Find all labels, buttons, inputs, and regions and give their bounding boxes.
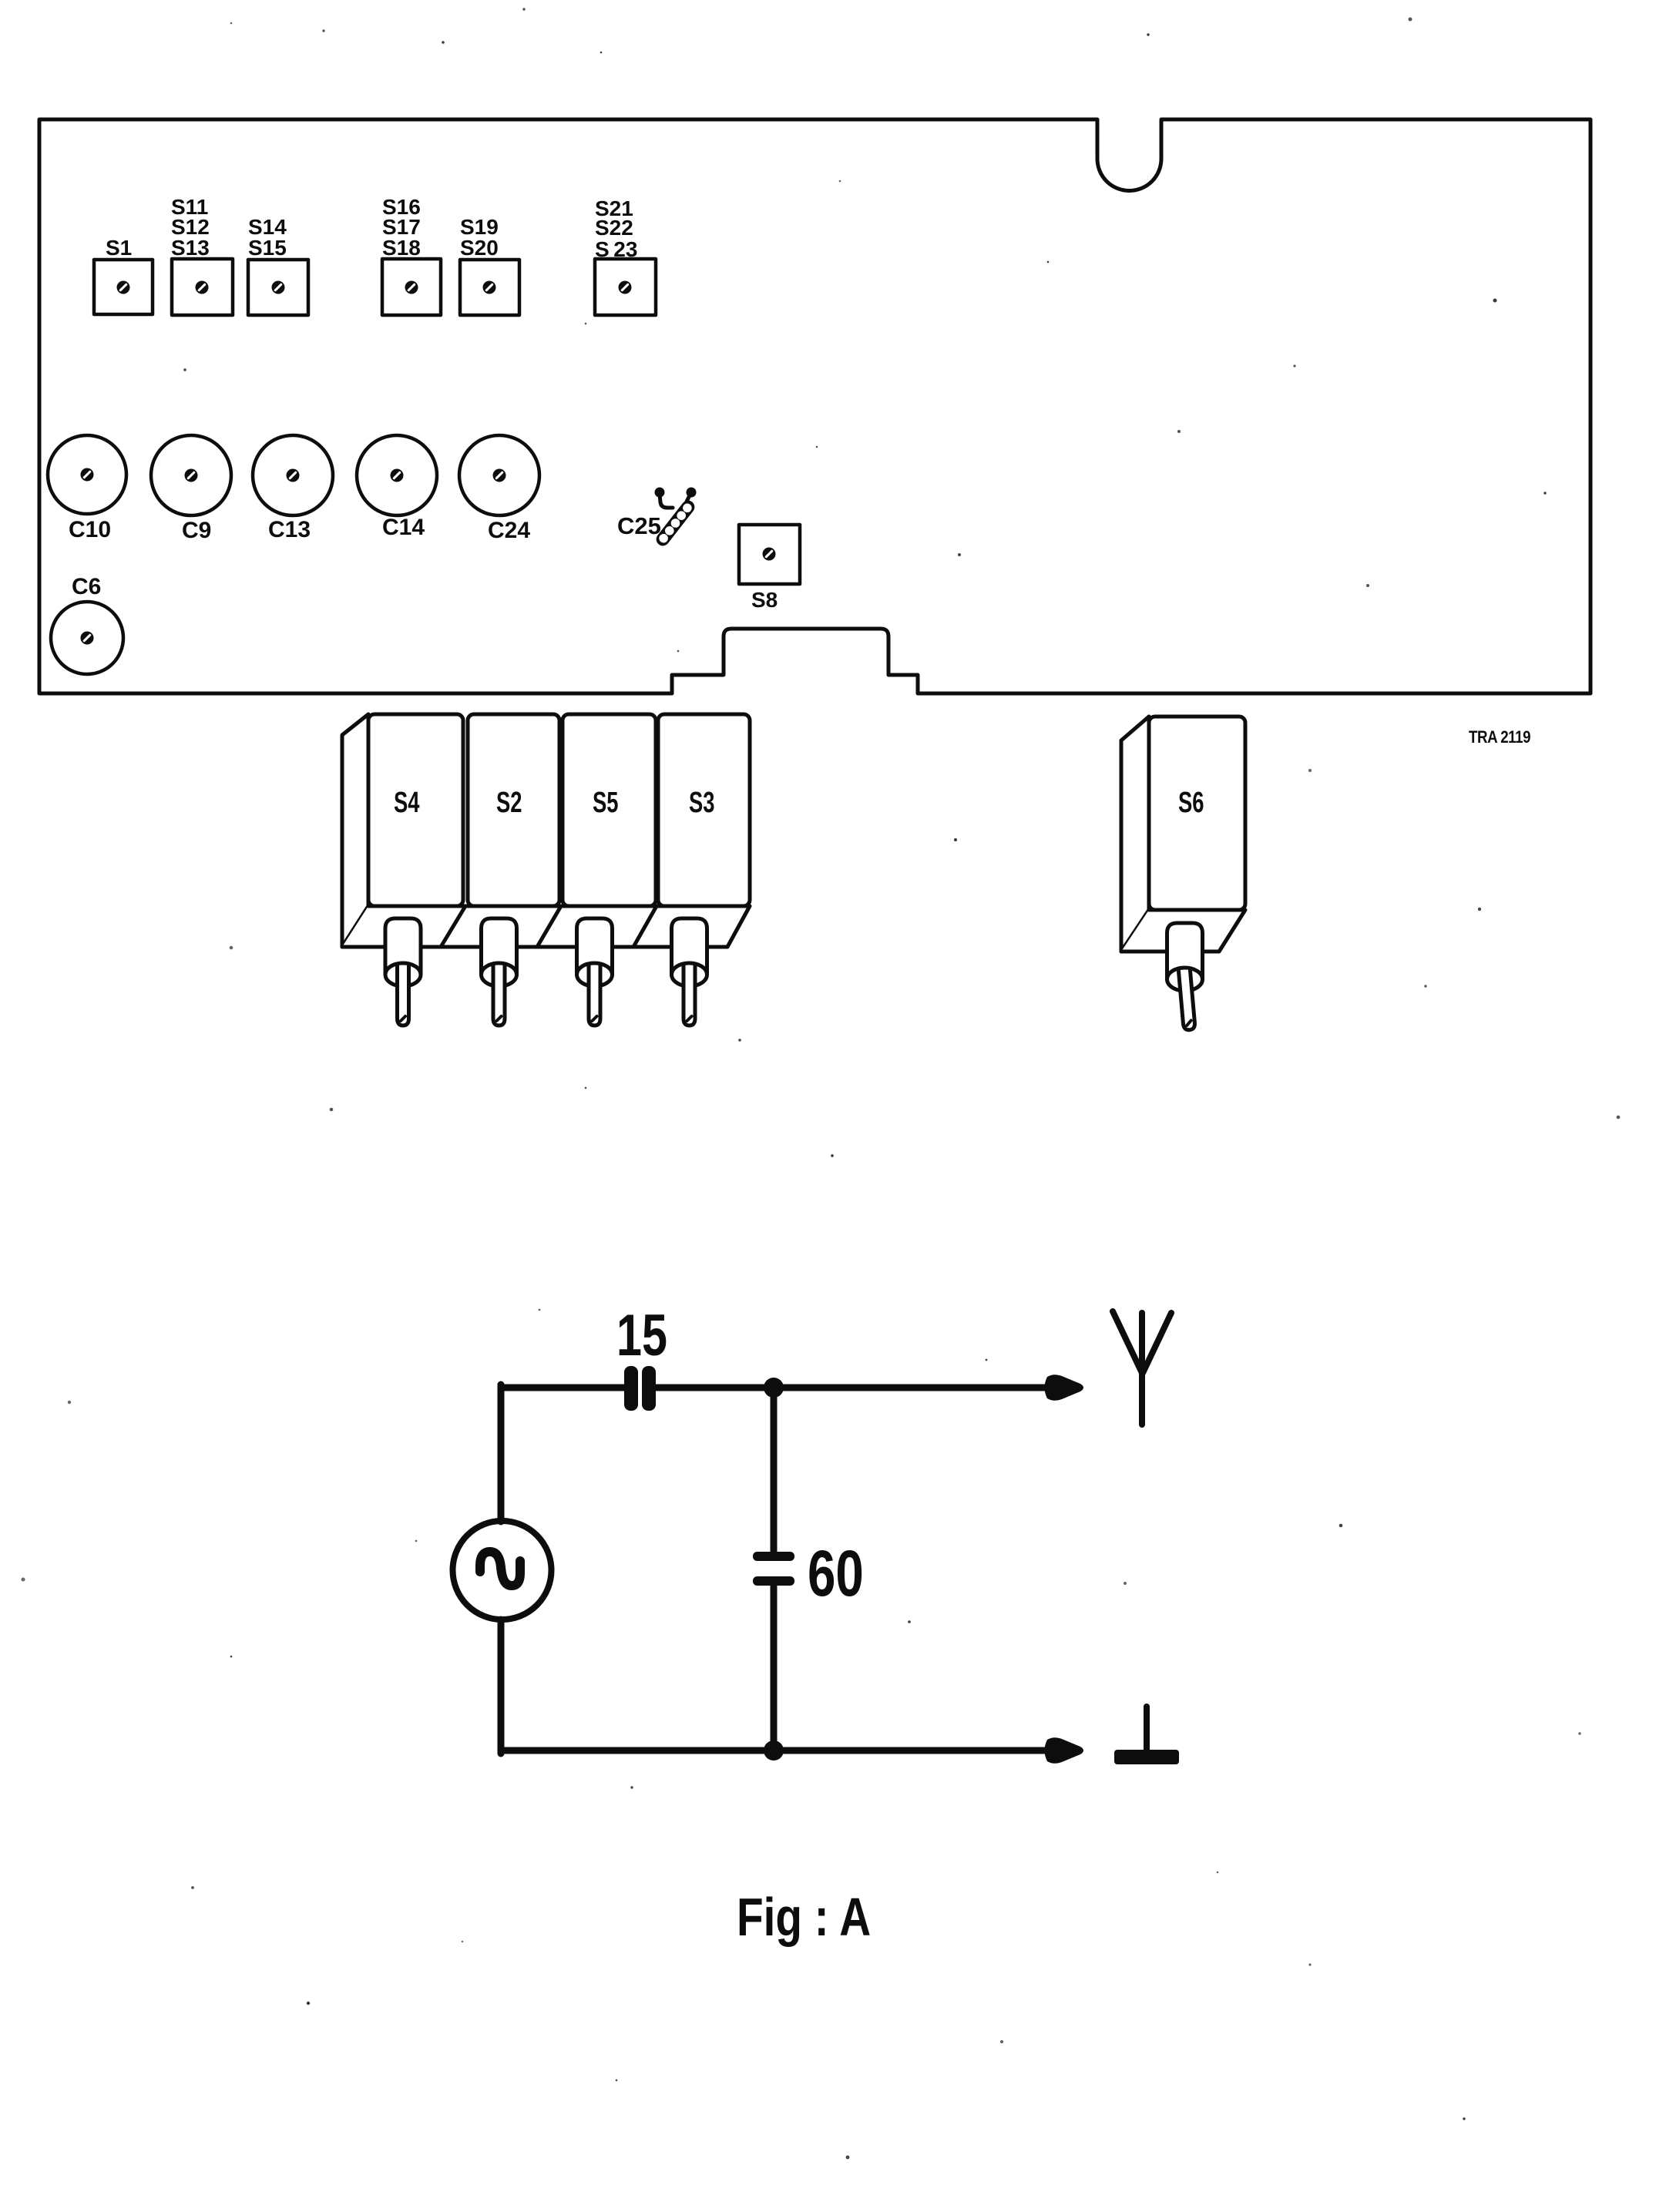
trimmer capacitor C9 (151, 435, 231, 543)
shaft of S5 (577, 918, 613, 1025)
switch block S4 S2 S5 S3 : left side face (342, 714, 368, 947)
wire: junction down to capacitor 60 (771, 1388, 778, 1552)
svg-text:S22: S22 (595, 216, 633, 240)
wire: capacitor 60 to bottom junction (771, 1586, 778, 1750)
svg-text:S13: S13 (171, 236, 210, 260)
svg-text:S8: S8 (751, 588, 778, 612)
shaft of S4 (385, 918, 421, 1025)
svg-text:TRA 2119: TRA 2119 (1469, 729, 1530, 747)
svg-text:S4: S4 (394, 787, 420, 819)
trimmer pad S19 S20 (460, 215, 519, 315)
AC source circle (453, 1521, 552, 1620)
switch S4 front face (368, 714, 463, 906)
svg-text:C9: C9 (182, 518, 211, 543)
trimmer capacitor C13 (253, 435, 333, 542)
trimmer capacitor C24 (459, 435, 539, 543)
trimmer pad S14 S15 (248, 215, 308, 315)
arrowhead to antenna (1045, 1375, 1084, 1401)
capacitor 60 plates (753, 1537, 864, 1609)
svg-text:C10: C10 (69, 517, 111, 542)
svg-text:S5: S5 (593, 787, 618, 819)
shaft of S2 (482, 918, 517, 1025)
switch block bottom face (342, 906, 750, 947)
trimmer pad S16 S17 S18 (382, 195, 441, 315)
trimmer capacitor C10 (48, 435, 126, 542)
svg-text:C6: C6 (72, 574, 101, 599)
wire top: capacitor to antenna arrow (654, 1385, 1054, 1391)
arrowhead to ground (1045, 1737, 1084, 1764)
svg-text:60: 60 (808, 1537, 864, 1609)
switch S2 front face (468, 714, 559, 906)
trimmer pad S21 S22 S23 (595, 196, 656, 315)
svg-text:S20: S20 (460, 236, 499, 260)
trimmer pad S11 S12 S13 (171, 195, 233, 315)
switch S6 left side face (1121, 717, 1149, 952)
svg-text:S3: S3 (689, 787, 714, 819)
capacitor 15 plates (616, 1303, 667, 1411)
switch S5 front face (563, 714, 656, 906)
bottom face separator lines (441, 906, 657, 947)
wire: top-left corner down to source (498, 1385, 505, 1522)
trimmer pad S1 (94, 236, 153, 314)
trimmer capacitor C14 (357, 435, 437, 540)
svg-text:15: 15 (616, 1303, 667, 1368)
node B junction dot (764, 1740, 784, 1761)
coil C25 (617, 488, 697, 549)
svg-text:S18: S18 (382, 236, 421, 260)
svg-text:S6: S6 (1178, 787, 1204, 819)
svg-text:C24: C24 (488, 518, 530, 543)
shaft of S3 (672, 918, 707, 1025)
svg-text:C13: C13 (268, 517, 311, 542)
wire top: source to capacitor 15 (501, 1385, 626, 1391)
shaft of S6 (1167, 923, 1203, 1030)
wire: source down to bottom wire (498, 1620, 505, 1754)
switch S3 front face (658, 714, 750, 906)
svg-text:C14: C14 (382, 515, 425, 540)
ground symbol (1114, 1707, 1179, 1764)
trimmer capacitor C6 (51, 574, 123, 674)
antenna symbol (1113, 1311, 1171, 1425)
switch S6 bottom face (1121, 910, 1245, 952)
svg-text:Fig : A: Fig : A (737, 1887, 871, 1947)
svg-text:S2: S2 (496, 787, 522, 819)
wire bottom: source to ground arrow (501, 1747, 1054, 1754)
node A junction dot (764, 1378, 784, 1398)
switch S6 front face (1149, 717, 1245, 910)
trimmer pad S8 (739, 525, 800, 612)
svg-text:C25: C25 (617, 512, 661, 539)
svg-text:S1: S1 (106, 236, 132, 260)
svg-text:S 23: S 23 (595, 237, 637, 261)
board outline TRA2119 PCB (39, 119, 1590, 693)
svg-text:S15: S15 (248, 236, 287, 260)
AC source sine symbol (480, 1552, 520, 1586)
